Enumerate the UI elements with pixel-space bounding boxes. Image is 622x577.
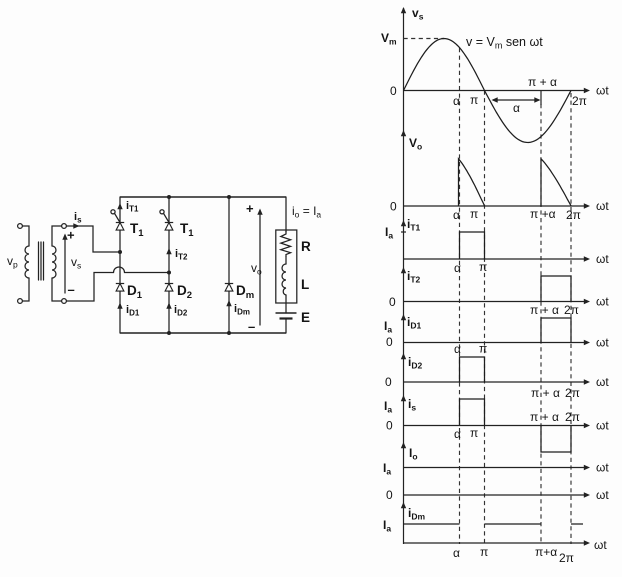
is negative pulse xyxy=(541,426,571,453)
Vo pulse alpha to pi xyxy=(459,159,485,206)
transformer secondary terminal top xyxy=(62,224,67,229)
svg-text:α: α xyxy=(513,101,520,115)
wire R to L xyxy=(285,257,287,265)
Vo plot horizontal axis xyxy=(404,203,591,208)
vs plot horizontal axis xyxy=(404,88,591,93)
diode D1 xyxy=(116,284,124,292)
svg-text:2π: 2π xyxy=(564,303,579,317)
dashed gridline pi plus alpha xyxy=(540,104,542,544)
iT2 plot axis arrow xyxy=(401,267,406,273)
iD1 plot axis arrow xyxy=(401,314,406,320)
svg-text:2π: 2π xyxy=(565,386,580,400)
vs plot axis arrow xyxy=(401,7,406,13)
wire secondary bottom to T2 D2 junction with hop xyxy=(66,267,169,301)
svg-text:v = Vm sen ωt: v = Vm sen ωt xyxy=(466,35,543,51)
iD1 plot horizontal axis xyxy=(404,340,591,345)
svg-text:ωt: ωt xyxy=(596,375,609,389)
svg-text:+: + xyxy=(67,228,75,243)
iT2 pulse xyxy=(541,276,571,302)
svg-text:ωt: ωt xyxy=(596,336,609,350)
iT1 plot axis arrow xyxy=(401,220,406,226)
svg-text:α: α xyxy=(453,546,460,560)
svg-text:0: 0 xyxy=(386,419,393,433)
svg-text:0: 0 xyxy=(390,200,397,214)
transformer primary terminal top xyxy=(18,224,23,229)
node Dm top junction xyxy=(227,195,231,199)
Io plot zero axis xyxy=(404,492,591,497)
iD1 current arrow xyxy=(117,303,122,309)
Dm branch wire xyxy=(228,197,230,333)
node Dm bottom junction xyxy=(227,331,231,335)
dashed gridline pi xyxy=(484,91,486,545)
svg-text:–: – xyxy=(68,282,75,297)
svg-text:ωt: ωt xyxy=(596,419,609,433)
T2 D2 branch wire xyxy=(168,197,170,333)
diode Dm xyxy=(225,284,233,292)
iDm waveform segment 2 xyxy=(485,523,542,525)
iDm plot horizontal axis xyxy=(404,540,591,545)
svg-text:ωt: ωt xyxy=(596,252,609,266)
svg-text:ωt: ωt xyxy=(596,488,609,502)
iD2 current arrow xyxy=(166,303,171,309)
svg-text:π: π xyxy=(479,260,487,274)
svg-text:R: R xyxy=(301,239,311,254)
Vo plot axis arrow xyxy=(401,130,406,136)
iD1 pulse xyxy=(541,318,571,343)
battery E xyxy=(276,313,297,319)
Ia tick iT1 plot xyxy=(401,231,406,233)
iT2 current arrow xyxy=(166,248,171,254)
svg-text:α: α xyxy=(454,342,461,356)
iT1 current arrow xyxy=(117,203,122,209)
iD2 plot horizontal axis xyxy=(404,379,591,384)
alpha span double arrow xyxy=(492,97,541,102)
vo voltage arrow xyxy=(257,209,262,326)
svg-text:π: π xyxy=(480,545,488,559)
inductor L xyxy=(282,264,286,295)
svg-text:π + α: π + α xyxy=(530,303,559,317)
svg-text:0: 0 xyxy=(389,295,396,309)
wire secondary top to T1 D1 junction xyxy=(66,226,120,252)
dashed Vm peak level line xyxy=(404,38,445,40)
transformer secondary terminal bottom xyxy=(62,299,67,304)
load branch top wire xyxy=(285,197,287,232)
diode D2 xyxy=(165,284,173,292)
battery to bottom rail wire xyxy=(285,319,287,334)
svg-text:π+α: π+α xyxy=(535,545,557,559)
svg-text:0: 0 xyxy=(386,488,393,502)
iD2 pulse xyxy=(460,357,485,382)
svg-text:π: π xyxy=(470,207,478,221)
node T2 D2 midpoint junction xyxy=(167,271,171,275)
svg-text:ωt: ωt xyxy=(594,538,607,552)
dashed gridline 2pi xyxy=(570,93,572,544)
thyristor T1 left xyxy=(111,210,124,230)
svg-text:2π: 2π xyxy=(566,208,581,222)
svg-text:ωt: ωt xyxy=(596,295,609,309)
svg-text:ωt: ωt xyxy=(596,199,609,213)
transformer primary terminal bottom xyxy=(18,299,23,304)
svg-text:2π: 2π xyxy=(565,410,580,424)
iDm waveform segment 3 xyxy=(571,523,583,525)
svg-text:0: 0 xyxy=(385,375,392,389)
svg-text:α: α xyxy=(454,427,461,441)
Io constant current line xyxy=(404,465,591,470)
svg-text:2π: 2π xyxy=(572,94,587,108)
wire secondary bottom lead xyxy=(52,278,62,301)
iT1 plot horizontal axis xyxy=(404,256,591,261)
node T2 top junction xyxy=(167,195,171,199)
resistor R xyxy=(281,231,291,257)
vs sine curve xyxy=(404,39,572,143)
svg-text:2π: 2π xyxy=(559,551,574,565)
svg-text:+: + xyxy=(246,201,254,216)
wire secondary top lead xyxy=(52,226,62,246)
svg-text:0: 0 xyxy=(386,335,393,349)
wire L to E xyxy=(285,295,287,313)
svg-text:ωt: ωt xyxy=(596,461,609,475)
svg-text:π +α: π +α xyxy=(530,207,556,221)
thyristor T1 right xyxy=(160,210,173,230)
svg-text:α: α xyxy=(454,261,461,275)
T1 D1 branch wire xyxy=(119,197,121,333)
svg-text:π + α: π + α xyxy=(528,75,557,89)
wire primary bottom lead xyxy=(22,278,29,301)
svg-text:ωt: ωt xyxy=(596,84,609,98)
svg-text:π + α: π + α xyxy=(530,410,559,424)
dashed gridline alpha xyxy=(459,48,461,544)
iT2 plot horizontal axis xyxy=(404,299,591,304)
svg-text:–: – xyxy=(248,319,255,334)
iT1 pulse xyxy=(460,232,485,259)
svg-text:π: π xyxy=(470,426,478,440)
vs voltage arrow xyxy=(62,234,67,294)
svg-text:π: π xyxy=(470,93,478,107)
transformer primary winding xyxy=(25,246,29,278)
is plot axis arrow xyxy=(401,395,406,401)
svg-text:π: π xyxy=(479,342,487,356)
svg-text:π + α: π + α xyxy=(531,386,560,400)
is plot horizontal axis xyxy=(404,423,591,428)
svg-text:α: α xyxy=(453,94,460,108)
iD2 plot axis arrow xyxy=(401,353,406,359)
load box xyxy=(276,230,297,303)
is positive pulse xyxy=(460,399,485,426)
Io plot axis arrow xyxy=(401,442,406,448)
top rail wire xyxy=(120,196,286,198)
svg-text:α: α xyxy=(453,208,460,222)
bottom rail wire xyxy=(120,332,286,334)
iDm plot axis arrow xyxy=(401,502,406,508)
transformer secondary winding xyxy=(52,246,56,278)
waveform panel vertical axis xyxy=(403,8,405,544)
svg-text:L: L xyxy=(301,277,309,292)
pi plus alpha tick mark xyxy=(540,91,542,106)
svg-text:E: E xyxy=(301,310,310,325)
transformer core xyxy=(39,242,44,280)
iDm waveform segment 1 xyxy=(404,523,460,525)
wire primary top lead xyxy=(22,226,29,246)
node T1 D1 midpoint junction xyxy=(118,250,122,254)
Vo pulse pi+alpha to 2pi xyxy=(541,159,571,206)
is current arrow xyxy=(73,223,79,228)
iDm current arrow xyxy=(226,300,231,306)
node D1 bottom junction xyxy=(167,331,171,335)
svg-text:0: 0 xyxy=(390,84,397,98)
